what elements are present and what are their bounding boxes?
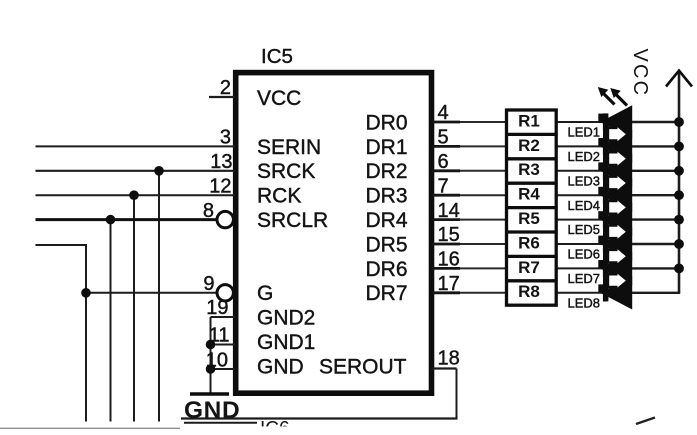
resistor R1 value label [518, 111, 540, 130]
white emission gap arrow between LED6 and LED7 [609, 249, 626, 263]
wire R5 to LED5 cathode [556, 219, 604, 221]
svg-text:R1: R1 [518, 111, 540, 130]
wire DR0 pin to R1 [432, 121, 507, 123]
pin number 15 (DR5) [438, 224, 460, 246]
svg-text:R7: R7 [518, 258, 540, 277]
wire R4 to LED4 cathode [556, 194, 604, 196]
pin number 17 (DR7) [438, 273, 460, 295]
svg-text:LED5: LED5 [568, 222, 601, 237]
inversion bubble pin 8 [217, 211, 233, 227]
svg-text:LED4: LED4 [568, 198, 601, 213]
IC6 reference designator label (cut off) [252, 419, 304, 435]
wire RCK net vertical drop [133, 195, 135, 421]
junction SRCK [154, 166, 164, 176]
LED8 emission arrow head nub [598, 284, 603, 292]
IC5 pin name label DR5 [365, 233, 407, 256]
wire pin 10 stub [211, 368, 236, 370]
pin number 9 (G) [203, 273, 214, 295]
svg-text:12: 12 [209, 175, 231, 197]
LED3 diode triangle [608, 160, 628, 181]
wire SRCK net horizontal [36, 170, 236, 172]
LED6 cathode bar [603, 235, 609, 252]
LED6 emission arrow head nub [598, 236, 603, 244]
wire SEROUT stub [432, 367, 457, 369]
LED1 cathode bar [603, 113, 609, 130]
LED5 name label [568, 222, 601, 237]
svg-text:GND: GND [257, 355, 304, 378]
wire R3 to LED3 cathode [556, 170, 604, 172]
wire DR6 pin to R7 [432, 267, 507, 269]
wire R8 to LED8 cathode [556, 292, 604, 294]
op-amp/IC body IC5 (shift register) [236, 73, 432, 394]
LED2 cathode bar [603, 138, 609, 155]
svg-text:DR3: DR3 [365, 185, 407, 208]
LED6 name label [568, 247, 601, 262]
svg-text:LED7: LED7 [568, 271, 601, 286]
wire DR1 pin to R2 [432, 145, 507, 147]
svg-text:VCC: VCC [257, 87, 301, 110]
IC5 pin name label DR6 [365, 258, 407, 281]
svg-text:LED6: LED6 [568, 247, 601, 262]
svg-text:VCC: VCC [629, 49, 651, 98]
svg-text:R2: R2 [518, 136, 540, 155]
svg-text:SEROUT: SEROUT [319, 355, 407, 378]
VCC bus vertical [678, 71, 681, 293]
LED4 name label [568, 198, 601, 213]
LED3 name label [568, 173, 601, 188]
junction LED1 on VCC bus [674, 117, 684, 127]
white emission gap arrow between LED2 and LED3 [609, 152, 626, 166]
junction LED6 on VCC bus [674, 239, 684, 249]
LED2 emission arrow head nub [598, 138, 603, 146]
LED8 cathode bar [603, 284, 609, 301]
LED1 emission arrows [598, 87, 627, 106]
IC5 pin name label DR2 [365, 160, 407, 183]
svg-text:IC5: IC5 [261, 45, 293, 68]
white emission gap arrow between LED1 and LED2 [609, 127, 626, 141]
LED5 diode triangle [608, 209, 628, 230]
resistor R5 value label [518, 209, 540, 228]
IC5 pin name label RCK [257, 185, 301, 208]
LED6 diode triangle [608, 233, 628, 254]
wire SEROUT bottom run [181, 417, 458, 419]
pin number 2 (VCC) [220, 77, 231, 99]
junction pin 11 [206, 340, 216, 350]
LED1 diode triangle [608, 111, 628, 132]
pin number 11 (GND1) [209, 325, 230, 347]
svg-text:DR5: DR5 [365, 233, 407, 256]
pin number 16 (DR6) [438, 249, 460, 271]
IC5 pin name label GND1 [257, 331, 315, 354]
LED7 emission arrow head nub [598, 260, 603, 268]
svg-text:2: 2 [220, 77, 231, 99]
junction SRCLR [106, 215, 116, 225]
wire R7 to LED7 cathode [556, 267, 604, 269]
wire pin 11 stub [211, 344, 236, 346]
IC5 pin name label VCC [257, 87, 301, 110]
wire RCK net horizontal [36, 194, 236, 196]
gap filler between LED3 and LED4 [606, 175, 632, 191]
IC6 box top edge (cut off) [184, 422, 257, 424]
resistor R2 value label [518, 136, 540, 155]
gap filler between LED5 and LED6 [606, 224, 632, 240]
IC5 pin name label GND2 [257, 307, 315, 330]
svg-text:G: G [257, 282, 273, 305]
svg-text:3: 3 [220, 127, 231, 149]
LED cathode rail line [603, 114, 606, 302]
pin number 19 (GND2) [206, 297, 228, 319]
pin number 5 (DR1) [438, 127, 449, 149]
resistor array R1-R8 outline [507, 110, 557, 305]
svg-text:SRCLR: SRCLR [257, 209, 328, 232]
svg-text:R6: R6 [518, 233, 540, 252]
svg-text:19: 19 [206, 297, 228, 319]
wire G net horizontal [86, 292, 217, 294]
svg-text:GND2: GND2 [257, 307, 315, 330]
svg-text:DR6: DR6 [365, 258, 407, 281]
IC5 pin name label SRCK [257, 160, 315, 183]
wire G net upper-left elbow [36, 245, 87, 422]
junction LED7 on VCC bus [674, 264, 684, 274]
svg-text:LED8: LED8 [568, 295, 601, 310]
pin number 13 (SRCK) [210, 151, 232, 173]
wire pin 19 stub [211, 316, 236, 318]
pin number 6 (DR2) [438, 151, 449, 173]
IC5 pin name label GND [257, 355, 304, 378]
gap filler between LED6 and LED7 [606, 248, 632, 264]
LED1 name label [568, 125, 601, 140]
LED1 emission arrow head nub [598, 114, 603, 122]
IC5 pin name label DR3 [365, 185, 407, 208]
resistor R3 value label [518, 160, 540, 179]
junction LED2 on VCC bus [674, 142, 684, 152]
gap filler between LED7 and LED8 [606, 272, 632, 288]
ground bar symbol [190, 392, 229, 395]
inversion bubble pin 9 [217, 285, 233, 301]
junction LED3 on VCC bus [674, 166, 684, 176]
wire LED3 anode to VCC bus [630, 170, 681, 172]
svg-text:LED2: LED2 [568, 149, 601, 164]
wire ground drop from pin 19 [210, 317, 212, 393]
wire LED5 anode to VCC bus [630, 218, 681, 220]
LED8 diode triangle [608, 282, 628, 303]
wire R6 to LED6 cathode [556, 243, 604, 245]
IC5 pin name label DR7 [365, 282, 407, 305]
LED3 emission arrow head nub [598, 162, 603, 170]
svg-text:9: 9 [203, 273, 214, 295]
svg-text:R5: R5 [518, 209, 540, 228]
wire SRCLR net vertical drop [110, 220, 112, 422]
svg-text:SRCK: SRCK [257, 160, 315, 183]
LED7 diode triangle [608, 258, 628, 279]
LED5 cathode bar [603, 211, 609, 228]
LED8 name label [568, 295, 601, 310]
VCC power arrow symbol [666, 71, 692, 87]
junction LED4 on VCC bus [674, 190, 684, 200]
svg-text:DR2: DR2 [365, 160, 407, 183]
svg-text:GND: GND [184, 397, 240, 424]
pin number 4 (DR0) [438, 102, 449, 124]
wire DR7 pin to R8 [432, 292, 507, 294]
LED3 cathode bar [603, 162, 609, 179]
resistor R7 value label [518, 258, 540, 277]
white emission gap arrow between LED7 and LED8 [609, 274, 626, 288]
wire R1 to LED1 cathode [556, 121, 604, 123]
svg-text:DR1: DR1 [365, 136, 407, 159]
IC5 reference designator label [261, 45, 293, 68]
gap filler between LED1 and LED2 [606, 126, 632, 142]
wire LED7 anode to VCC bus [630, 267, 681, 269]
pin number 12 (RCK) [209, 175, 231, 197]
pin number 10 (GND) [206, 350, 228, 372]
svg-text:SERIN: SERIN [257, 136, 321, 159]
VCC net label (rotated) [629, 49, 651, 98]
wire LED6 anode to VCC bus [630, 243, 681, 245]
gap filler between LED2 and LED3 [606, 150, 632, 166]
LED4 cathode bar [603, 187, 609, 204]
junction LED5 on VCC bus [674, 215, 684, 225]
IC5 pin name label G [257, 282, 273, 305]
IC5 pin name label DR4 [365, 209, 407, 232]
pin number 18 (SEROUT) [438, 348, 460, 370]
wire SRCLR net horizontal (bold) [36, 218, 218, 221]
white emission gap arrow between LED3 and LED4 [609, 176, 626, 190]
LED4 emission arrow head nub [598, 187, 603, 195]
white emission gap arrow between LED4 and LED5 [609, 201, 626, 215]
stray mark bottom right [636, 418, 655, 425]
LED2 name label [568, 149, 601, 164]
wire R2 to LED2 cathode [556, 145, 604, 147]
LED5 emission arrow head nub [598, 211, 603, 219]
pin number 3 (SERIN) [220, 127, 231, 149]
pin number 8 (SRCLR) [203, 200, 214, 222]
wire DR4 pin to R5 [432, 219, 507, 221]
resistor R8 value label [518, 282, 540, 301]
IC5 pin name label DR0 [365, 111, 407, 134]
IC5 pin name label SEROUT [319, 355, 407, 378]
resistor R4 value label [518, 185, 540, 204]
wire SEROUT vertical drop [456, 369, 458, 419]
pin number 7 (DR3) [438, 175, 449, 197]
wire LED1 anode to VCC bus [630, 121, 681, 123]
junction G [81, 288, 91, 298]
svg-text:R3: R3 [518, 160, 540, 179]
wire pin 2 stub [209, 96, 236, 98]
wire DR3 pin to R4 [432, 194, 507, 196]
svg-text:DR4: DR4 [365, 209, 407, 232]
LED7 name label [568, 271, 601, 286]
LED2 diode triangle [608, 136, 628, 157]
pin number 14 (DR4) [438, 200, 460, 222]
wire DR2 pin to R3 [432, 170, 507, 172]
white emission gap arrow between LED5 and LED6 [609, 225, 626, 239]
svg-text:DR7: DR7 [365, 282, 407, 305]
wire LED8 anode to VCC bus [630, 292, 681, 294]
IC5 pin name label DR1 [365, 136, 407, 159]
wire SRCK net vertical drop [158, 171, 160, 422]
svg-text:R4: R4 [518, 185, 540, 204]
IC5 pin name label SERIN [257, 136, 321, 159]
LED7 cathode bar [603, 260, 609, 277]
junction pin 10 [206, 364, 216, 374]
junction RCK [129, 190, 139, 200]
wire DR5 pin to R6 [432, 243, 507, 245]
svg-text:LED3: LED3 [568, 173, 601, 188]
wire LED2 anode to VCC bus [630, 145, 681, 147]
svg-text:DR0: DR0 [365, 111, 407, 134]
LED4 diode triangle [608, 185, 628, 206]
IC5 pin name label SRCLR [257, 209, 328, 232]
wire LED4 anode to VCC bus [630, 194, 681, 196]
svg-text:18: 18 [438, 348, 460, 370]
page edge line bottom left [0, 427, 180, 429]
svg-text:LED1: LED1 [568, 125, 601, 140]
gap filler between LED4 and LED5 [606, 199, 632, 215]
ground net label GND [184, 397, 240, 424]
resistor R6 value label [518, 233, 540, 252]
svg-text:GND1: GND1 [257, 331, 315, 354]
svg-text:RCK: RCK [257, 185, 301, 208]
wire SERIN net [36, 145, 236, 147]
svg-text:R8: R8 [518, 282, 540, 301]
